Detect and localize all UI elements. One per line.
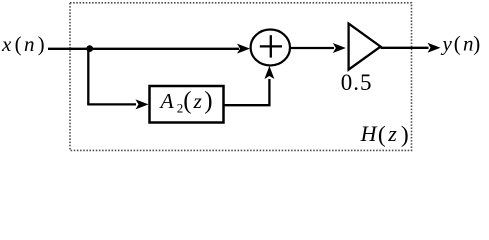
svg-text:): ) bbox=[38, 32, 45, 56]
wire to A2(z) block bbox=[87, 103, 136, 105]
block A2(z) bbox=[150, 86, 224, 123]
wire gain to output y(n) bbox=[381, 47, 429, 49]
node junction dot bbox=[86, 45, 93, 52]
arrowhead into A2(z) bbox=[136, 99, 149, 109]
label x(n) bbox=[1, 32, 45, 56]
svg-text:(: ( bbox=[378, 122, 386, 148]
svg-text:(: ( bbox=[454, 32, 461, 56]
svg-text:): ) bbox=[473, 32, 480, 56]
summer plus sign bbox=[260, 45, 282, 47]
gain triangle 0.5 bbox=[349, 24, 381, 70]
svg-text:y: y bbox=[441, 32, 453, 56]
svg-text:H: H bbox=[360, 121, 378, 146]
wire A2(z) out to corner bbox=[224, 104, 271, 106]
svg-text:z: z bbox=[387, 121, 397, 146]
svg-text:A: A bbox=[159, 89, 175, 113]
svg-text:): ) bbox=[204, 88, 212, 115]
wire corner up to summer bbox=[268, 79, 270, 105]
svg-text:(: ( bbox=[183, 88, 191, 115]
arrowhead at output bbox=[428, 43, 441, 53]
svg-text:0.5: 0.5 bbox=[341, 70, 373, 95]
arrowhead into summer left bbox=[237, 44, 250, 54]
dashed system boundary box H(z) bbox=[70, 3, 412, 151]
wire node down bbox=[87, 49, 89, 105]
wire input x(n) to summer bbox=[48, 48, 239, 50]
summer circle bbox=[251, 30, 290, 66]
svg-text:): ) bbox=[401, 122, 409, 148]
svg-text:n: n bbox=[24, 32, 35, 56]
svg-text:z: z bbox=[193, 89, 203, 113]
svg-text:x: x bbox=[1, 32, 12, 56]
arrowhead into gain triangle bbox=[333, 43, 346, 53]
label H(z) bbox=[360, 121, 409, 148]
label A2(z) bbox=[159, 88, 213, 116]
wire summer to gain triangle bbox=[290, 47, 334, 49]
svg-text:n: n bbox=[463, 32, 474, 56]
label y(n) bbox=[441, 32, 481, 56]
svg-text:(: ( bbox=[15, 32, 22, 56]
arrowhead into summer bottom bbox=[264, 66, 274, 79]
